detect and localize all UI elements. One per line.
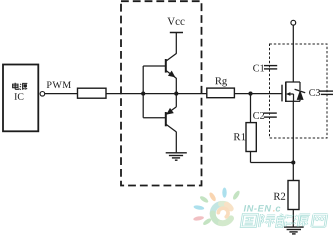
- wire output node to Q2 emitter: [175, 94, 177, 107]
- label C2: [253, 112, 264, 119]
- Q2 collector lead: [166, 125, 176, 132]
- wire R1 bottom: [250, 152, 252, 163]
- wire to source: [251, 162, 294, 164]
- watermark 国际能源网 (hand-drawn outline glyphs): [241, 214, 327, 227]
- label R2: [274, 193, 285, 200]
- Q1 base lead: [143, 65, 165, 67]
- transistor Q1 (NPN upper driver): [143, 54, 176, 94]
- node (main line / bases): [141, 92, 145, 96]
- wire Q1 emitter to output node: [175, 78, 177, 94]
- Q3 drain lead: [286, 81, 300, 83]
- Q3 gate bar: [281, 85, 283, 102]
- wire R1 top: [250, 94, 252, 123]
- Q2 base lead: [143, 117, 165, 119]
- body diode D1: [295, 82, 306, 101]
- resistor Rg: [207, 88, 235, 98]
- resistor R2: [288, 181, 299, 210]
- wire: [106, 93, 143, 95]
- Q3 channel bar: [285, 82, 287, 102]
- wire: [45, 93, 78, 95]
- resistor R1: [246, 123, 256, 152]
- watermark IN-EN.c: [244, 205, 281, 211]
- watermark dot: [273, 210, 275, 211]
- swirl e: [213, 204, 231, 224]
- Q3 substrate arrow: [286, 92, 291, 96]
- D1 triangle: [297, 90, 304, 100]
- resistor (PWM series): [78, 88, 107, 98]
- label R1: [234, 133, 246, 140]
- wire substrate to source: [293, 94, 295, 101]
- Q1 emitter arrow: [168, 71, 176, 78]
- D1 cathode bar: [295, 89, 306, 93]
- wire Q2 collector to ground: [175, 132, 177, 153]
- watermark logo: [193, 188, 241, 227]
- Q3 substrate lead: [290, 93, 294, 95]
- node (source/R2): [291, 160, 295, 164]
- wire: [175, 33, 177, 54]
- Q2 emitter arrow: [166, 108, 174, 115]
- node (output): [174, 92, 178, 96]
- label 电源 (hand-drawn glyphs): [13, 83, 28, 90]
- capacitor C1: [264, 66, 277, 69]
- label Vcc: [167, 18, 184, 25]
- transistor Q2 (PNP lower driver): [143, 94, 176, 153]
- capacitor C3 plates: [319, 91, 333, 94]
- wire: [143, 93, 176, 95]
- watermark text IN-EN: [244, 205, 272, 211]
- ground (source): [284, 227, 304, 234]
- D1 cathode wire: [299, 82, 301, 90]
- wire to R2: [292, 163, 294, 181]
- power IC box: [3, 65, 38, 132]
- MOSFET Q3 (power switch): [282, 82, 300, 102]
- terminal circle PWM: [40, 92, 45, 97]
- label IC: [14, 93, 23, 100]
- D1 anode wire: [299, 100, 301, 101]
- wire: [234, 93, 282, 95]
- wire drain: [292, 25, 294, 82]
- label C1: [253, 65, 264, 72]
- wire (output to Rg): [176, 93, 207, 95]
- label Rg: [215, 77, 227, 86]
- wire base tie: [142, 66, 144, 118]
- Q1 emitter lead: [166, 71, 176, 79]
- Vcc bar: [170, 32, 183, 34]
- drain terminal: [291, 20, 296, 25]
- petals: [193, 188, 241, 227]
- Q2 emitter lead: [166, 107, 176, 114]
- label PWM: [47, 81, 71, 88]
- Q2 base bar: [165, 112, 167, 126]
- parasitic dotted box: [270, 44, 328, 138]
- node (gate/R1): [248, 92, 252, 96]
- driver dashed box: [121, 1, 202, 185]
- label C3: [309, 89, 320, 96]
- wire source down: [292, 101, 294, 162]
- capacitor C2: [264, 113, 277, 117]
- Q3 source lead: [286, 100, 300, 102]
- Q1 base bar: [165, 59, 167, 73]
- wire R2 bottom: [292, 210, 294, 228]
- ground (driver): [166, 153, 187, 160]
- Q1 collector lead: [166, 54, 176, 61]
- watermark c: [276, 206, 281, 211]
